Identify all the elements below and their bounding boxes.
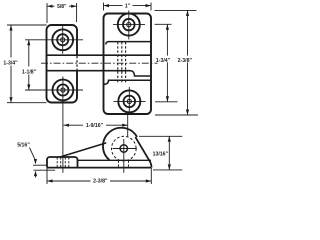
dim 1-3/4 left dimension line	[10, 25, 12, 103]
dim 13/16 extension bottom	[153, 169, 182, 171]
horizontal leaf strip top edge	[47, 54, 152, 56]
screw hole H1 inner	[61, 38, 65, 42]
label 1-9/16	[83, 121, 106, 129]
dim 1-3/4 right dimension line	[166, 24, 168, 102]
ramp edge	[60, 143, 106, 157]
screw hole H2 outer	[53, 80, 74, 101]
screw hole H2 middle	[57, 84, 68, 95]
screw hole H3 horizontal centerline	[113, 24, 145, 26]
dim 1-3/4 right arrow bottom	[166, 96, 169, 102]
keeper hidden line below hole left	[118, 161, 120, 167]
screw hole H3 vertical centerline	[128, 11, 130, 40]
dim 13/16 arrow bottom	[168, 164, 171, 170]
screw hole H3 inner	[127, 23, 131, 27]
dim 1-1/8 arrow bottom	[27, 85, 30, 91]
dim 5/8 arrow left	[47, 5, 53, 8]
label 1-3/4 right	[154, 56, 173, 64]
right plate step edge	[131, 71, 152, 76]
keeper head round hump	[103, 128, 137, 160]
dim 2-3/8 right extension bottom	[155, 114, 198, 116]
keeper head right slope	[135, 137, 151, 168]
label 1-1/8	[20, 67, 39, 76]
right plate knuckle line A	[106, 42, 151, 45]
dim 1 arrow right	[146, 4, 152, 7]
screw hole H1 horizontal centerline / extension	[25, 39, 83, 41]
dim 1-3/4 left extension bottom	[7, 102, 47, 104]
right leaf plate outline	[104, 14, 152, 115]
dim 1-1/8 dimension line	[28, 40, 30, 90]
dim 2-3/8 bottom arrow left	[47, 179, 53, 182]
bottom view base bottom edge	[47, 167, 151, 169]
dim 1-9/16 dimension line	[64, 124, 128, 126]
foot hidden hole line 1	[56, 158, 58, 168]
dim 5/8 dimension line	[47, 5, 77, 7]
screw hole H4 vertical centerline	[128, 87, 130, 114]
dim 2-3/8 bottom arrow right	[146, 179, 152, 182]
dim 5/8 extension line left	[46, 3, 48, 23]
screw hole H1 outer	[52, 29, 73, 50]
dim 1-3/4 left extension top	[7, 24, 47, 26]
right plate lower knuckle top edge	[104, 80, 152, 84]
dim 1-3/4 left arrow bottom	[9, 97, 12, 103]
dim 5/16 leader with down arrow	[30, 148, 36, 160]
label 1-3/4 left	[1, 58, 20, 67]
dim 5/16 lower arrow pointing up	[35, 172, 37, 178]
svg-text:5/8": 5/8"	[57, 4, 67, 10]
long vertical centerline from H2 down to bottom view foot hole	[62, 77, 64, 173]
svg-text:1": 1"	[125, 3, 131, 9]
dim 5/8 extension line right	[76, 3, 78, 22]
dim 13/16 arrow top	[168, 136, 171, 142]
keeper head hole	[120, 145, 127, 152]
dim 2-3/8 right extension top	[155, 9, 197, 11]
label 2-3/8 right	[176, 56, 195, 64]
screw hole H2 inner	[61, 88, 65, 92]
foot block outline	[47, 157, 78, 168]
dim 5/8 arrow right	[71, 5, 77, 8]
left leaf plate outline	[47, 25, 78, 103]
dim 1 dimension line	[104, 5, 152, 7]
label 5/8	[55, 3, 70, 10]
keeper hidden line below hole right	[128, 161, 130, 167]
screw hole H2 horizontal centerline / extension	[25, 89, 83, 91]
dim 2-3/8 right arrow bottom	[186, 110, 189, 116]
screw hole H4 middle	[124, 96, 136, 108]
bottom view base top edge	[78, 159, 152, 161]
foot hidden hole line 2	[60, 158, 62, 168]
label 5/16	[17, 142, 30, 148]
foot hidden hole line 4	[68, 158, 70, 168]
dim 5/16 upper extension	[33, 164, 47, 166]
svg-text:1-3/4": 1-3/4"	[3, 60, 18, 66]
svg-text:1-9/16": 1-9/16"	[86, 123, 104, 129]
dim 1-9/16 arrow right	[122, 124, 128, 127]
hinge pin hidden line left	[117, 42, 119, 84]
label 13/16	[151, 150, 169, 158]
svg-text:2-3/8": 2-3/8"	[93, 178, 108, 184]
dim 2-3/8 bottom extension left	[46, 168, 48, 184]
screw hole H1 middle	[57, 34, 68, 45]
dim 1-9/16 arrow left	[64, 124, 70, 127]
hinge pin axis centerline (dash-dot)	[41, 62, 158, 64]
dim 1 arrow left	[104, 4, 110, 7]
hinge pin hidden line center	[121, 42, 123, 84]
left leaf right edge hidden segment	[76, 56, 78, 70]
dim 2-3/8 right arrow top	[186, 10, 189, 16]
dim 1-3/4 right extension top	[155, 23, 172, 25]
label 2-3/8 bottom	[91, 176, 111, 184]
dim 1-9/16 right extension vertical	[127, 115, 129, 137]
dim 1 extension line left	[103, 3, 105, 11]
screw hole H4 horizontal centerline	[114, 100, 146, 102]
dim 1 extension line right	[150, 3, 152, 11]
svg-text:1-1/8": 1-1/8"	[22, 69, 37, 75]
dim 1-1/8 arrow top	[27, 40, 30, 46]
horizontal leaf strip bottom edge	[47, 70, 131, 72]
svg-text:13/16": 13/16"	[153, 152, 169, 158]
svg-text:1-3/4": 1-3/4"	[156, 58, 171, 64]
keeper head hole vertical centerline	[123, 139, 125, 173]
keeper head hidden circle	[112, 136, 137, 161]
foot hidden hole line 3	[64, 158, 66, 168]
keeper head hole horizontal centerline	[113, 148, 137, 150]
screw hole H1 vertical centerline	[62, 25, 64, 54]
dim 1-3/4 left arrow top	[9, 25, 12, 31]
dim 13/16 extension top	[139, 135, 182, 137]
dim 2-3/8 right dimension line	[187, 10, 189, 115]
dim 1-3/4 right extension bottom	[155, 101, 178, 103]
svg-text:2-3/8": 2-3/8"	[178, 58, 193, 64]
screw hole H4 inner	[127, 99, 131, 103]
screw hole H3 middle	[123, 19, 135, 31]
dim 13/16 dimension line	[168, 136, 170, 170]
screw hole H3 outer	[118, 14, 140, 36]
dim 5/16 lower extension	[34, 169, 56, 171]
dim 2-3/8 bottom dimension line	[47, 180, 151, 182]
dim 1-3/4 right arrow top	[166, 24, 169, 30]
dim 2-3/8 bottom extension right	[150, 168, 152, 184]
screw hole H4 outer	[118, 90, 140, 112]
svg-text:5/16": 5/16"	[17, 142, 30, 148]
label 1	[123, 2, 133, 9]
hinge pin hidden line right	[125, 42, 127, 84]
